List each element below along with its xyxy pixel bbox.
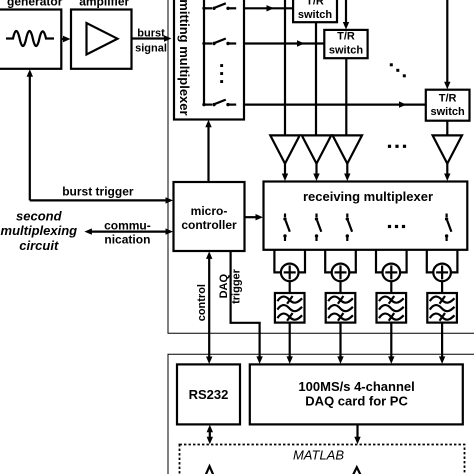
svg-text:amplifier: amplifier: [79, 0, 129, 9]
svg-text:MATLAB: MATLAB: [293, 447, 344, 462]
svg-text:circuit: circuit: [19, 238, 59, 253]
svg-text:switch: switch: [298, 9, 333, 21]
svg-text:nication: nication: [104, 232, 150, 246]
svg-text:second: second: [16, 209, 63, 224]
svg-text:multiplexing: multiplexing: [1, 223, 78, 238]
svg-text:commu-: commu-: [104, 219, 151, 233]
svg-text:burst: burst: [137, 28, 165, 40]
svg-text:transmitting multiplexer: transmitting multiplexer: [177, 0, 192, 116]
svg-text:T/R: T/R: [337, 31, 355, 43]
svg-text:T/R: T/R: [306, 0, 324, 8]
svg-text:DAQ: DAQ: [218, 274, 230, 299]
svg-text:RS232: RS232: [189, 387, 229, 402]
svg-text:micro-: micro-: [191, 204, 228, 218]
svg-text:receiving multiplexer: receiving multiplexer: [303, 189, 433, 204]
svg-text:T/R: T/R: [439, 93, 457, 105]
svg-text:generator: generator: [7, 0, 63, 9]
svg-text:trigger: trigger: [231, 268, 243, 304]
svg-text:control: control: [196, 284, 208, 321]
svg-text:signal: signal: [135, 42, 167, 54]
svg-text:switch: switch: [430, 106, 465, 118]
svg-text:burst trigger: burst trigger: [62, 185, 134, 199]
svg-text:100MS/s 4-channel: 100MS/s 4-channel: [298, 379, 414, 394]
svg-text:controller: controller: [181, 218, 237, 232]
svg-text:switch: switch: [329, 44, 364, 56]
svg-text:DAQ card for PC: DAQ card for PC: [305, 393, 408, 408]
